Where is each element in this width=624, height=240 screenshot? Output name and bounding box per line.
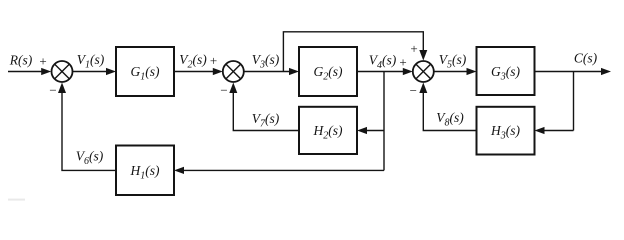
block H1 (116, 146, 174, 196)
wire tap node C down (573, 72, 575, 131)
wire block G3 to output C(s) (535, 68, 612, 75)
summing junction S2 (223, 61, 244, 82)
svg-text:+: + (39, 53, 46, 68)
wire block H1 to summer S1 (58, 83, 116, 171)
wire node V4 to block H1 input (174, 167, 384, 174)
wire node V4 to block H2 input (357, 127, 384, 134)
svg-text:−: − (220, 83, 227, 98)
svg-text:−: − (410, 83, 417, 98)
svg-text:−: − (49, 83, 56, 98)
wire block G2 to summer S3 (357, 68, 413, 75)
wire feedforward top loop from node V3 to summer S3 (283, 32, 427, 72)
block G1 (116, 47, 174, 96)
block H3 (477, 107, 535, 155)
wire summer S3 to block G3 (434, 68, 477, 75)
svg-text:C(s): C(s) (574, 51, 598, 66)
svg-text:+: + (210, 53, 217, 68)
wire block G1 to summer S2 (174, 68, 223, 75)
summing junction S1 (52, 61, 73, 82)
wire summer S1 to block G1 (73, 68, 117, 75)
wire R(s) input to summer S1 (8, 68, 51, 75)
svg-text:+: + (399, 55, 406, 70)
block G2 (299, 47, 357, 96)
block G3 (477, 47, 535, 95)
wire block H2 to summer S2 (229, 83, 299, 131)
block H2 (299, 107, 357, 154)
svg-text:R(s): R(s) (9, 53, 33, 68)
wire summer S2 to block G2 (244, 68, 299, 75)
svg-text:+: + (410, 41, 417, 56)
faint scan artifact bottom-left (8, 199, 25, 201)
wire block H3 to summer S3 (419, 83, 476, 131)
wire tap node V4 down (383, 72, 385, 171)
wire node C to block H3 input (535, 127, 574, 134)
summing junction S3 (413, 61, 434, 82)
